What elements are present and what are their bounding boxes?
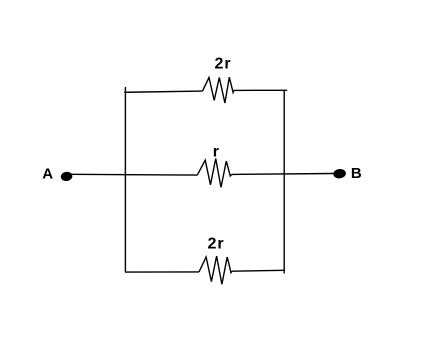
svg-text:B: B	[351, 165, 362, 182]
svg-text:2r: 2r	[215, 56, 232, 73]
top wire left segment	[124, 91, 202, 92]
svg-text:A: A	[42, 166, 53, 183]
wire A to left rail (middle branch left segment)	[72, 173, 198, 176]
bottom wire right segment	[232, 269, 284, 272]
resistor 2r (top) zigzag	[203, 77, 234, 103]
svg-text:2r: 2r	[208, 235, 225, 252]
wire right rail to B (middle branch right segment)	[232, 173, 334, 176]
resistor 2r (bottom) zigzag	[199, 256, 232, 284]
node A dot	[60, 171, 73, 182]
bottom wire left segment	[125, 271, 199, 273]
svg-text:r: r	[213, 144, 219, 161]
left rail	[124, 87, 126, 272]
top wire right segment	[234, 89, 287, 91]
resistor r (middle) zigzag	[197, 159, 232, 188]
node B dot	[333, 168, 347, 179]
right rail	[283, 90, 285, 273]
